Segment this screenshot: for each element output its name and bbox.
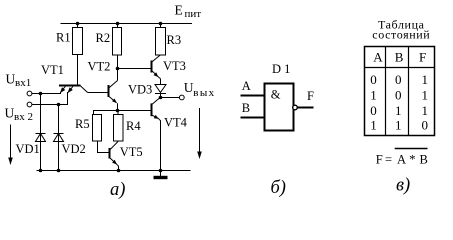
svg-text:R2: R2 — [96, 31, 111, 45]
formula overline — [395, 148, 428, 150]
svg-text:=: = — [385, 153, 392, 167]
svg-text:1: 1 — [395, 103, 402, 118]
wire node to VT4 base — [94, 111, 152, 115]
transistor VT3 — [152, 55, 161, 79]
label U_вх1 — [6, 72, 32, 90]
svg-text:0: 0 — [370, 103, 377, 118]
svg-text:U: U — [5, 106, 15, 121]
svg-text:B: B — [395, 50, 404, 65]
ground rail — [37, 170, 191, 172]
output terminal U_вых — [179, 95, 184, 100]
inversion bubble — [293, 105, 298, 110]
formula F = A*B inverted — [376, 153, 428, 167]
svg-text:VT4: VT4 — [164, 116, 188, 130]
svg-text:VT1: VT1 — [41, 63, 64, 77]
transistor VT1 — [59, 86, 88, 94]
diode VD1 — [36, 94, 46, 171]
input terminal U_вх2 — [27, 102, 32, 107]
resistor R5 — [93, 115, 102, 142]
junction dot rail-R1 — [76, 22, 80, 26]
junction dot splitter node — [116, 109, 120, 113]
svg-text:B: B — [420, 153, 428, 167]
logic gate D1 body — [265, 84, 294, 131]
svg-text:R1: R1 — [56, 31, 71, 45]
svg-text:F: F — [376, 153, 383, 167]
svg-text:VD2: VD2 — [62, 142, 86, 156]
junction dot input2 — [57, 103, 61, 107]
junction dot VT4-ground — [159, 169, 163, 173]
input terminal U_вх1 — [27, 91, 32, 96]
output wire — [161, 97, 180, 99]
wire VT1 collector to VT2 base — [88, 92, 109, 94]
wire R1 to VT1 base — [77, 55, 79, 85]
svg-text:1: 1 — [422, 88, 429, 103]
svg-text:U: U — [184, 80, 194, 95]
svg-text:пит: пит — [185, 8, 202, 20]
svg-text:1: 1 — [422, 72, 429, 87]
junction dot rail-R2 — [116, 22, 120, 26]
input line B — [241, 117, 265, 119]
transistor VT5 — [110, 142, 119, 171]
svg-text:VT3: VT3 — [163, 59, 186, 73]
svg-text:D 1: D 1 — [272, 62, 290, 76]
svg-text:A: A — [242, 79, 251, 93]
wire R2 to VT2 collector — [117, 55, 119, 81]
truth table frame — [365, 47, 435, 136]
table rows — [370, 72, 428, 133]
svg-text:VD1: VD1 — [16, 142, 40, 156]
wire U_вх1 to VT1 emitter1 — [32, 92, 61, 94]
junction dot VD1-ground — [39, 169, 43, 173]
transistor VT4 — [152, 98, 161, 171]
svg-text:U: U — [6, 72, 16, 87]
svg-text:F: F — [307, 89, 314, 103]
svg-text:а): а) — [110, 180, 125, 200]
output voltage arrow — [197, 108, 202, 159]
svg-text:VD3: VD3 — [128, 83, 152, 97]
svg-text:*: * — [409, 153, 415, 167]
label U_вх2 — [5, 106, 33, 124]
transistor VT2 — [109, 81, 118, 104]
svg-text:в): в) — [396, 176, 410, 196]
svg-text:R4: R4 — [126, 119, 141, 133]
wire node to VT3 base — [118, 68, 152, 70]
wire R5 to VT5 base — [98, 141, 110, 153]
junction dot output node — [159, 96, 163, 100]
junction dot VT5-ground — [117, 169, 121, 173]
diode VD2 — [54, 105, 64, 171]
svg-text:F: F — [419, 50, 426, 65]
svg-text:0: 0 — [395, 88, 402, 103]
resistor R2 — [113, 24, 122, 56]
svg-text:1: 1 — [370, 88, 377, 103]
table column line 1 — [385, 47, 387, 136]
svg-text:состояний: состояний — [372, 28, 430, 42]
svg-text:1: 1 — [395, 118, 402, 133]
diode VD3 — [155, 79, 166, 98]
ground symbol — [154, 171, 168, 178]
input voltage arrow — [8, 125, 13, 166]
resistor R3 — [156, 24, 166, 56]
svg-text:R5: R5 — [75, 117, 90, 131]
svg-text:0: 0 — [370, 72, 377, 87]
svg-text:A: A — [373, 50, 383, 65]
input line A — [241, 95, 265, 97]
label E_пит — [175, 3, 202, 21]
svg-text:вх1: вх1 — [15, 77, 31, 89]
svg-text:A: A — [397, 153, 406, 167]
svg-text:0: 0 — [395, 72, 402, 87]
svg-text:VT5: VT5 — [120, 145, 143, 159]
junction dot rail-R3 — [159, 22, 163, 26]
svg-text:B: B — [242, 101, 250, 115]
svg-text:0: 0 — [422, 118, 429, 133]
junction dot input1 — [39, 92, 43, 96]
label U_вых — [184, 80, 216, 99]
svg-text:&: & — [271, 88, 281, 102]
table header separator — [365, 67, 435, 69]
svg-text:вых: вых — [193, 87, 215, 99]
wire U_вх2 to VT1 emitter2 — [32, 92, 68, 105]
output line F — [297, 107, 313, 109]
svg-text:R3: R3 — [167, 33, 182, 47]
svg-text:вх 2: вх 2 — [14, 111, 33, 123]
svg-text:1: 1 — [422, 103, 429, 118]
table title — [372, 18, 430, 42]
power rail — [61, 23, 193, 25]
svg-text:VT2: VT2 — [88, 60, 111, 74]
table column line 2 — [408, 47, 410, 136]
svg-text:1: 1 — [370, 118, 377, 133]
svg-text:E: E — [175, 3, 183, 18]
wire VT2 emitter to node — [117, 103, 119, 110]
resistor R4 — [114, 111, 124, 142]
svg-text:б): б) — [271, 178, 286, 198]
resistor R1 — [73, 24, 83, 55]
junction dot VD2-ground — [57, 169, 61, 173]
junction dot VT3 base node — [116, 67, 120, 71]
